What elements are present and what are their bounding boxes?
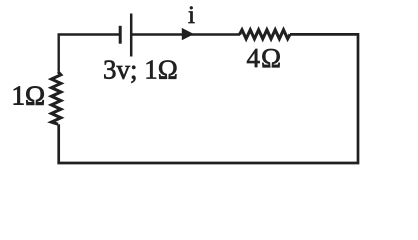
svg-text:1Ω: 1Ω (12, 81, 46, 111)
svg-text:i: i (188, 2, 195, 29)
svg-text:3v; 1Ω: 3v; 1Ω (103, 54, 178, 84)
svg-text:4Ω: 4Ω (247, 43, 283, 73)
